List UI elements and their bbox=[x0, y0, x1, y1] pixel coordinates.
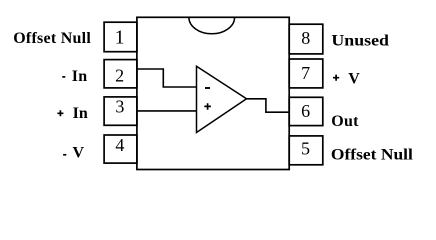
svg-text:V: V bbox=[348, 71, 360, 88]
op-amp non-inverting input plus sign bbox=[204, 103, 211, 110]
pin 6 box bbox=[289, 97, 323, 125]
pin 7 box bbox=[289, 59, 323, 88]
pin 7 label "+ V" plus sign bbox=[333, 75, 339, 81]
svg-text:In: In bbox=[73, 105, 88, 122]
svg-text:5: 5 bbox=[301, 139, 310, 159]
svg-text:2: 2 bbox=[115, 66, 124, 86]
op-amp IC U1 body (DIP-8 outline) bbox=[137, 17, 289, 169]
op-amp A1 triangle symbol bbox=[197, 66, 247, 132]
svg-text:3: 3 bbox=[115, 97, 124, 117]
pin 3 label "+ In" plus sign bbox=[57, 110, 63, 116]
pin 2 box bbox=[104, 60, 137, 88]
svg-text:7: 7 bbox=[301, 63, 310, 83]
svg-text:Out: Out bbox=[331, 113, 359, 130]
svg-text:Unused: Unused bbox=[331, 33, 389, 50]
wire: pin 2 to inverting input bbox=[137, 69, 197, 87]
pin-1 orientation notch bbox=[189, 17, 235, 33]
svg-text:4: 4 bbox=[115, 135, 124, 155]
pin 8 box bbox=[289, 24, 323, 54]
wire: op-amp output to pin 6 bbox=[247, 99, 290, 112]
pin 1 box bbox=[104, 22, 137, 52]
wire: pin 3 to non-inverting input bbox=[137, 110, 197, 112]
svg-text:1: 1 bbox=[115, 27, 125, 49]
pin 5 box bbox=[289, 136, 323, 165]
svg-text:Offset Null: Offset Null bbox=[13, 30, 91, 47]
pin 4 box bbox=[104, 135, 137, 163]
svg-text:Offset Null: Offset Null bbox=[331, 146, 414, 163]
op-amp inverting input minus sign bbox=[205, 87, 210, 89]
pin 3 box bbox=[104, 97, 137, 125]
svg-text:6: 6 bbox=[301, 101, 310, 121]
pin 4 label "- V" minus sign bbox=[63, 154, 66, 156]
pin 2 label "- In" minus sign bbox=[62, 76, 65, 78]
svg-text:In: In bbox=[72, 68, 87, 85]
svg-text:8: 8 bbox=[301, 28, 310, 48]
svg-text:V: V bbox=[73, 145, 85, 162]
